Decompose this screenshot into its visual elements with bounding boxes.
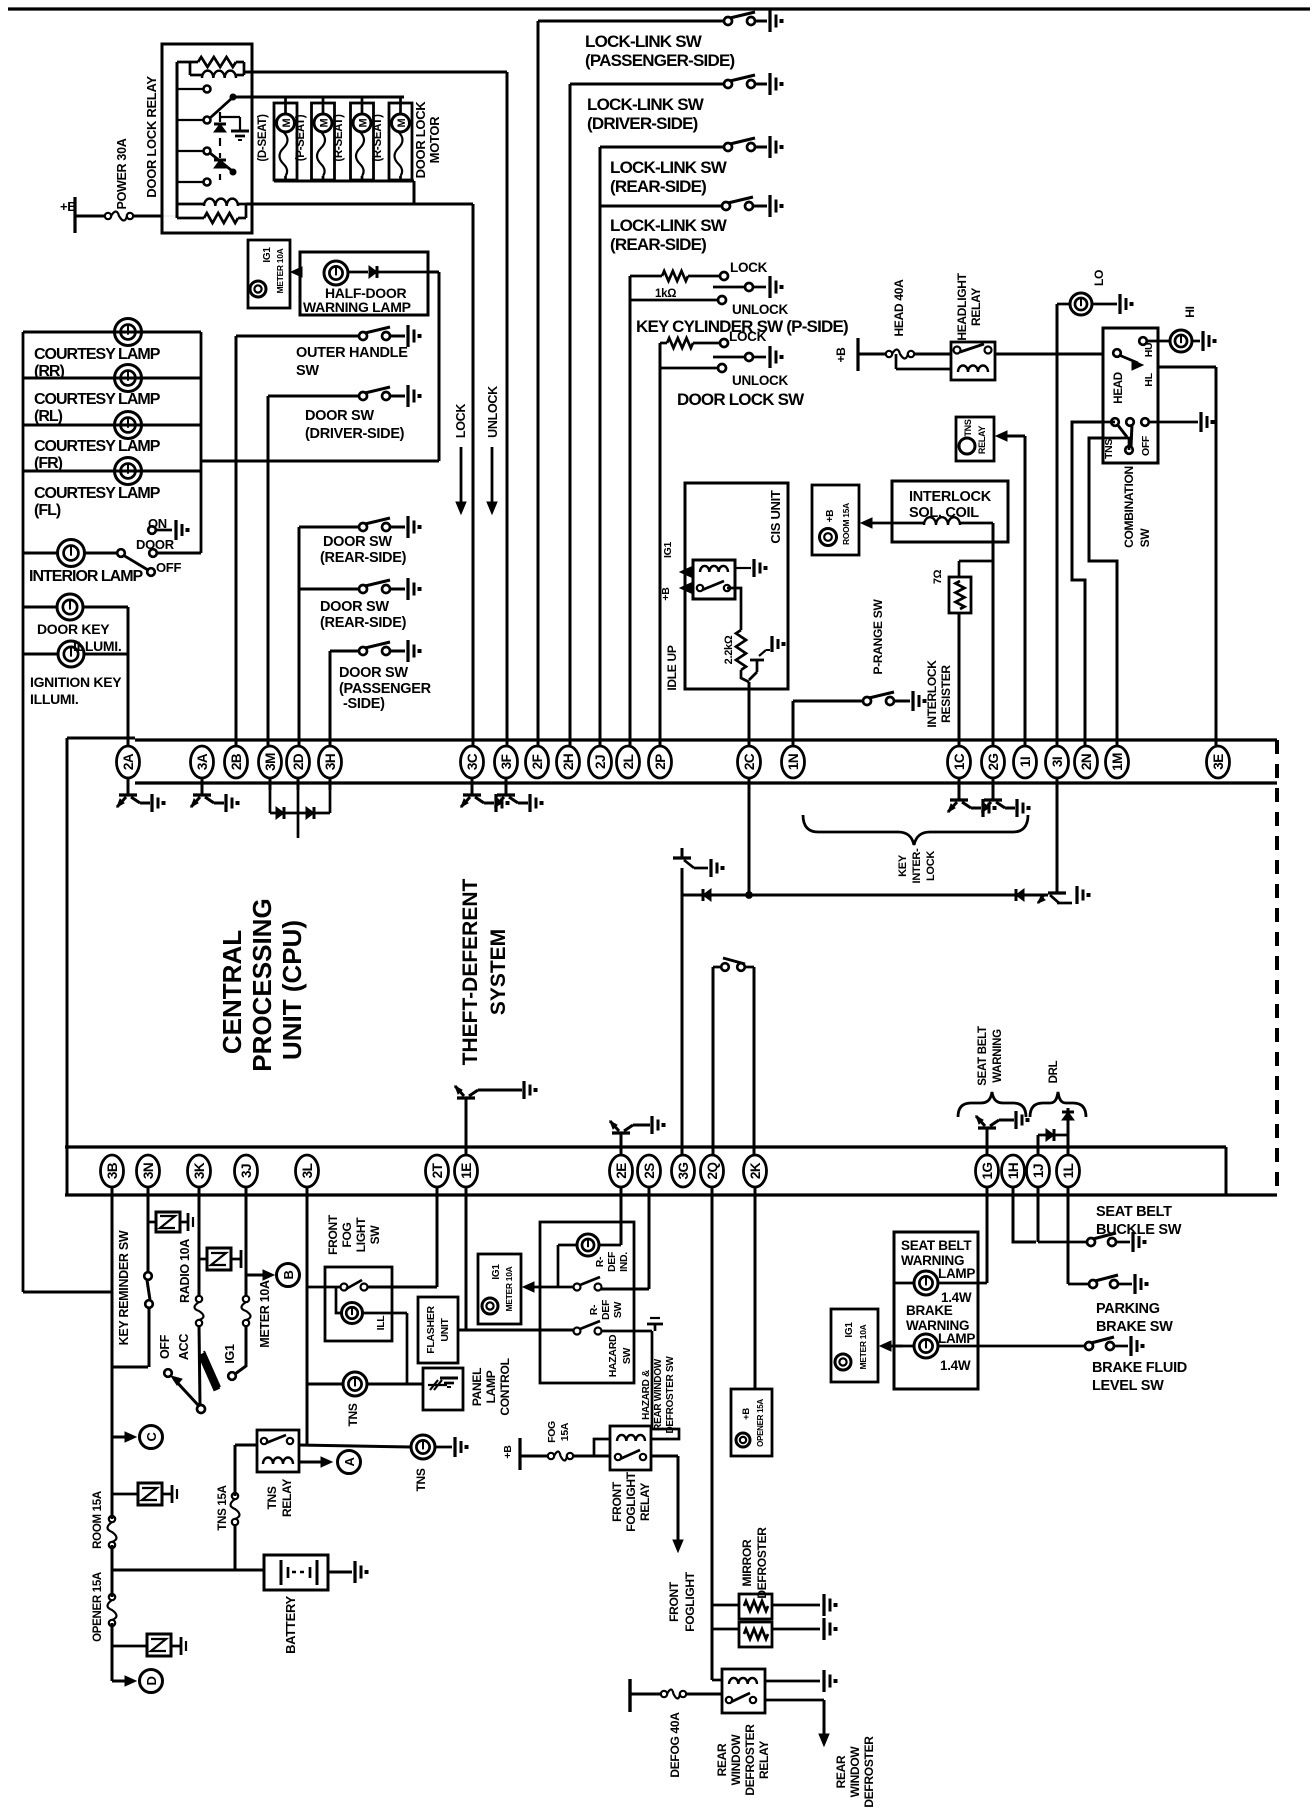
svg-text:3A: 3A: [195, 753, 210, 770]
svg-text:HEADLIGHT: HEADLIGHT: [955, 272, 969, 340]
svg-text:OUTER HANDLE: OUTER HANDLE: [296, 345, 408, 361]
svg-text:DOOR SW: DOOR SW: [320, 599, 389, 615]
svg-text:HAZARD &: HAZARD &: [641, 1370, 652, 1420]
svg-text:LOCK-LINK SW: LOCK-LINK SW: [585, 32, 703, 51]
svg-text:IG1: IG1: [662, 542, 674, 558]
svg-text:DEFROSTER SW: DEFROSTER SW: [665, 1356, 676, 1434]
svg-text:LAMP: LAMP: [938, 1331, 975, 1346]
svg-text:OFF: OFF: [156, 560, 181, 575]
svg-text:(PASSENGER-SIDE): (PASSENGER-SIDE): [585, 51, 734, 70]
svg-text:LIGHT: LIGHT: [354, 1217, 368, 1252]
svg-text:DEFROSTER: DEFROSTER: [755, 1527, 769, 1599]
svg-text:2E: 2E: [614, 1163, 629, 1179]
svg-text:COURTESY LAMP: COURTESY LAMP: [34, 438, 161, 455]
svg-text:C: C: [144, 1432, 159, 1442]
svg-text:3C: 3C: [465, 753, 480, 770]
svg-text:UNLOCK: UNLOCK: [732, 373, 788, 388]
svg-text:15A: 15A: [559, 1422, 571, 1441]
svg-text:IG1: IG1: [844, 1322, 855, 1338]
svg-text:1G: 1G: [980, 1162, 995, 1179]
svg-text:LOCK-LINK SW: LOCK-LINK SW: [610, 158, 728, 177]
svg-text:+B: +B: [741, 1408, 752, 1420]
svg-text:HU: HU: [1143, 343, 1155, 358]
svg-text:ILL: ILL: [375, 1315, 387, 1331]
svg-text:LOCK-LINK SW: LOCK-LINK SW: [610, 216, 728, 235]
svg-text:IG1: IG1: [491, 1264, 502, 1280]
svg-text:TNS: TNS: [265, 1486, 279, 1509]
svg-text:FOGLIGHT: FOGLIGHT: [624, 1471, 638, 1532]
svg-text:METER 10A: METER 10A: [504, 1266, 514, 1311]
svg-text:OFF: OFF: [158, 1334, 172, 1359]
svg-text:1H: 1H: [1006, 1163, 1021, 1179]
svg-text:WINDOW: WINDOW: [729, 1734, 743, 1786]
svg-text:INTERLOCK: INTERLOCK: [925, 660, 939, 728]
svg-text:COURTESY LAMP: COURTESY LAMP: [34, 485, 161, 502]
svg-text:TNS: TNS: [414, 1468, 428, 1491]
svg-text:DOOR: DOOR: [136, 537, 175, 552]
svg-text:3N: 3N: [141, 1163, 156, 1179]
svg-text:PROCESSING: PROCESSING: [247, 898, 277, 1071]
svg-text:A: A: [342, 1457, 357, 1467]
svg-text:2C: 2C: [742, 753, 757, 770]
svg-text:DOOR KEY: DOOR KEY: [37, 621, 110, 637]
svg-text:DEF: DEF: [600, 1299, 612, 1320]
svg-text:+B: +B: [825, 510, 836, 523]
svg-text:ROOM 15A: ROOM 15A: [92, 1491, 104, 1549]
svg-text:TNS 15A: TNS 15A: [217, 1485, 229, 1530]
svg-text:DEF: DEF: [606, 1251, 618, 1272]
svg-text:-SIDE): -SIDE): [343, 696, 385, 712]
svg-text:2G: 2G: [986, 753, 1001, 770]
svg-text:FRONT: FRONT: [326, 1214, 340, 1255]
svg-text:1E: 1E: [459, 1163, 474, 1179]
svg-text:KEY REMINDER SW: KEY REMINDER SW: [117, 1230, 131, 1345]
svg-text:3E: 3E: [1211, 754, 1226, 770]
svg-text:PARKING: PARKING: [1096, 1301, 1160, 1317]
svg-text:DOOR SW: DOOR SW: [339, 665, 408, 681]
svg-text:METER 10A: METER 10A: [258, 1280, 272, 1348]
svg-text:TNS: TNS: [963, 419, 973, 436]
svg-text:2Q: 2Q: [705, 1162, 720, 1179]
svg-text:IG1: IG1: [223, 1344, 237, 1364]
svg-text:SW: SW: [621, 1347, 633, 1364]
svg-text:MIRROR: MIRROR: [740, 1539, 754, 1586]
svg-text:UNIT (CPU): UNIT (CPU): [277, 920, 307, 1060]
svg-text:INTERIOR LAMP: INTERIOR LAMP: [29, 568, 144, 585]
svg-text:RESISTER: RESISTER: [939, 665, 953, 723]
svg-text:HEAD: HEAD: [1113, 372, 1125, 403]
svg-text:INTERLOCK: INTERLOCK: [909, 489, 992, 505]
svg-text:HI: HI: [1183, 306, 1197, 317]
svg-text:CIS UNIT: CIS UNIT: [768, 490, 783, 544]
svg-text:7Ω: 7Ω: [932, 569, 944, 584]
svg-text:LO: LO: [1092, 270, 1106, 286]
svg-text:RELAY: RELAY: [638, 1483, 652, 1521]
svg-text:DEFOG 40A: DEFOG 40A: [668, 1712, 682, 1778]
svg-text:M: M: [281, 118, 293, 127]
svg-text:LOCK: LOCK: [730, 260, 768, 275]
svg-text:THEFT-DEFERENT: THEFT-DEFERENT: [459, 879, 482, 1066]
svg-text:ILLUMI.: ILLUMI.: [30, 691, 78, 707]
svg-text:(REAR-SIDE): (REAR-SIDE): [320, 615, 407, 631]
svg-text:1I: 1I: [1018, 757, 1033, 767]
svg-text:3M: 3M: [263, 753, 278, 771]
svg-text:1M: 1M: [1110, 753, 1125, 771]
svg-text:DRL: DRL: [1048, 1060, 1060, 1083]
svg-text:3I: 3I: [1050, 757, 1065, 767]
svg-text:WINDOW: WINDOW: [848, 1746, 862, 1798]
svg-text:PANEL: PANEL: [470, 1368, 484, 1406]
svg-text:FLASHER: FLASHER: [425, 1306, 437, 1354]
svg-text:COURTESY LAMP: COURTESY LAMP: [34, 391, 161, 408]
svg-text:3L: 3L: [300, 1163, 315, 1178]
svg-text:BATTERY: BATTERY: [283, 1595, 298, 1653]
svg-text:IDLE UP: IDLE UP: [665, 645, 679, 691]
svg-text:CENTRAL: CENTRAL: [217, 930, 247, 1054]
svg-text:SW: SW: [296, 363, 319, 379]
svg-text:COURTESY LAMP: COURTESY LAMP: [34, 346, 161, 363]
svg-text:WARNING: WARNING: [992, 1029, 1004, 1083]
svg-text:OPENER 15A: OPENER 15A: [92, 1572, 104, 1642]
svg-text:DOOR LOCK: DOOR LOCK: [413, 101, 428, 179]
svg-text:3B: 3B: [105, 1162, 120, 1179]
svg-text:SW: SW: [368, 1225, 382, 1245]
svg-text:M: M: [358, 118, 370, 127]
svg-text:REAR: REAR: [834, 1755, 848, 1788]
svg-text:SW: SW: [612, 1301, 624, 1318]
svg-text:SYSTEM: SYSTEM: [487, 929, 510, 1015]
svg-text:3J: 3J: [239, 1164, 254, 1178]
svg-text:BRAKE SW: BRAKE SW: [1096, 1319, 1173, 1335]
svg-text:R-: R-: [594, 1256, 606, 1267]
svg-text:LOCK: LOCK: [925, 851, 937, 881]
svg-text:DOOR LOCK RELAY: DOOR LOCK RELAY: [144, 76, 159, 198]
svg-text:FRONT: FRONT: [610, 1481, 624, 1522]
svg-text:KEY: KEY: [897, 854, 909, 877]
svg-text:FOG: FOG: [340, 1222, 354, 1247]
svg-text:METER 10A: METER 10A: [275, 248, 285, 293]
svg-text:OFF: OFF: [1140, 435, 1152, 456]
svg-text:(REAR-SIDE): (REAR-SIDE): [320, 550, 407, 566]
svg-text:(R-SEAT): (R-SEAT): [333, 114, 345, 162]
svg-text:BUCKLE SW: BUCKLE SW: [1096, 1222, 1182, 1238]
svg-text:(DRIVER-SIDE): (DRIVER-SIDE): [305, 426, 405, 442]
svg-text:D: D: [144, 1676, 159, 1685]
svg-text:B: B: [281, 1270, 296, 1279]
svg-text:TNS: TNS: [346, 1403, 360, 1426]
svg-text:2H: 2H: [561, 754, 576, 770]
svg-text:LEVEL SW: LEVEL SW: [1092, 1378, 1164, 1394]
svg-text:HL: HL: [1143, 372, 1155, 386]
svg-text:DEFROSTER: DEFROSTER: [743, 1724, 757, 1796]
svg-text:3F: 3F: [499, 754, 514, 769]
svg-text:R-: R-: [588, 1304, 600, 1315]
svg-text:3K: 3K: [192, 1162, 207, 1179]
svg-text:UNLOCK: UNLOCK: [486, 386, 500, 438]
svg-text:RELAY: RELAY: [280, 1479, 294, 1517]
svg-text:SW: SW: [1138, 528, 1152, 548]
svg-text:2A: 2A: [121, 753, 136, 770]
svg-text:2P: 2P: [653, 754, 668, 770]
svg-text:(D-SEAT): (D-SEAT): [257, 114, 269, 162]
svg-text:RELAY: RELAY: [977, 426, 987, 454]
svg-text:LOCK: LOCK: [454, 404, 468, 438]
svg-text:IGNITION KEY: IGNITION KEY: [30, 674, 122, 690]
svg-text:(RL): (RL): [34, 408, 63, 425]
svg-text:IND.: IND.: [618, 1252, 630, 1272]
svg-text:DOOR LOCK SW: DOOR LOCK SW: [677, 390, 805, 409]
svg-text:SEAT BELT: SEAT BELT: [901, 1238, 972, 1253]
svg-text:(PASSENGER: (PASSENGER: [339, 681, 432, 697]
svg-text:+B: +B: [502, 1445, 514, 1459]
svg-text:(REAR-SIDE): (REAR-SIDE): [610, 177, 706, 196]
svg-text:DOOR SW: DOOR SW: [323, 534, 392, 550]
svg-text:FOG: FOG: [546, 1421, 558, 1443]
svg-text:SEAT BELT: SEAT BELT: [977, 1026, 989, 1086]
svg-text:1C: 1C: [952, 753, 967, 770]
svg-text:HAZARD: HAZARD: [607, 1334, 619, 1377]
svg-text:FRONT: FRONT: [667, 1581, 681, 1622]
svg-text:2.2kΩ: 2.2kΩ: [723, 635, 735, 664]
svg-text:M: M: [319, 118, 331, 127]
svg-text:POWER 30A: POWER 30A: [115, 138, 129, 209]
svg-text:LAMP: LAMP: [484, 1370, 498, 1403]
svg-text:ON: ON: [148, 516, 167, 531]
svg-text:(P-SEAT): (P-SEAT): [295, 114, 307, 161]
svg-text:BRAKE FLUID: BRAKE FLUID: [1092, 1360, 1187, 1376]
svg-text:LOCK-LINK SW: LOCK-LINK SW: [587, 95, 705, 114]
svg-text:(REAR-SIDE): (REAR-SIDE): [610, 235, 706, 254]
svg-text:2T: 2T: [430, 1162, 445, 1178]
svg-text:2J: 2J: [593, 755, 608, 769]
svg-text:SEAT BELT: SEAT BELT: [1096, 1204, 1172, 1220]
svg-text:(R-SEAT): (R-SEAT): [372, 114, 384, 162]
svg-text:IG1: IG1: [262, 247, 273, 263]
svg-text:2F: 2F: [530, 754, 545, 769]
svg-text:OPENER 15A: OPENER 15A: [756, 1399, 765, 1447]
svg-text:2D: 2D: [291, 753, 306, 770]
svg-text:2S: 2S: [642, 1163, 657, 1179]
svg-text:REAR: REAR: [715, 1743, 729, 1776]
svg-text:INTER-: INTER-: [911, 848, 923, 884]
svg-text:TNS: TNS: [1103, 439, 1115, 459]
svg-text:DEFROSTER: DEFROSTER: [862, 1736, 876, 1808]
svg-text:1J: 1J: [1031, 1164, 1046, 1178]
svg-text:(FR): (FR): [34, 455, 63, 472]
svg-text:COMBINATION: COMBINATION: [1122, 466, 1136, 548]
svg-text:(DRIVER-SIDE): (DRIVER-SIDE): [587, 114, 698, 133]
svg-text:2L: 2L: [621, 754, 636, 769]
svg-text:2K: 2K: [748, 1162, 763, 1179]
svg-text:ACC: ACC: [177, 1334, 191, 1360]
svg-text:1N: 1N: [786, 754, 801, 770]
svg-text:3G: 3G: [676, 1162, 691, 1179]
svg-text:BRAKE: BRAKE: [906, 1303, 953, 1318]
svg-text:+B: +B: [834, 347, 848, 363]
svg-text:P-RANGE SW: P-RANGE SW: [871, 599, 885, 675]
svg-text:LAMP: LAMP: [938, 1266, 975, 1281]
svg-text:REAR WINDOW: REAR WINDOW: [653, 1358, 664, 1431]
svg-text:RELAY: RELAY: [757, 1741, 771, 1779]
svg-text:3H: 3H: [323, 754, 338, 770]
svg-text:1.4W: 1.4W: [940, 1358, 971, 1373]
svg-text:1L: 1L: [1061, 1163, 1076, 1178]
svg-text:FOGLIGHT: FOGLIGHT: [683, 1571, 697, 1632]
svg-text:1kΩ: 1kΩ: [655, 288, 676, 300]
svg-text:MOTOR: MOTOR: [427, 116, 442, 164]
svg-text:HEAD 40A: HEAD 40A: [892, 279, 906, 337]
svg-text:ROOM 15A: ROOM 15A: [841, 503, 851, 545]
svg-text:LOCK: LOCK: [729, 329, 767, 344]
svg-text:UNLOCK: UNLOCK: [732, 302, 788, 317]
svg-text:(FL): (FL): [34, 502, 61, 519]
svg-text:METER 10A: METER 10A: [858, 1324, 868, 1369]
svg-text:RELAY: RELAY: [969, 288, 983, 326]
svg-text:2B: 2B: [229, 753, 244, 770]
svg-text:WARNING LAMP: WARNING LAMP: [303, 299, 411, 315]
svg-text:DOOR SW: DOOR SW: [305, 408, 374, 424]
svg-text:UNIT: UNIT: [439, 1317, 451, 1341]
svg-text:2N: 2N: [1079, 754, 1094, 770]
svg-text:M: M: [396, 118, 408, 127]
svg-text:+B: +B: [660, 587, 672, 601]
svg-text:CONTROL: CONTROL: [498, 1358, 512, 1415]
svg-text:RADIO 10A: RADIO 10A: [178, 1239, 192, 1303]
